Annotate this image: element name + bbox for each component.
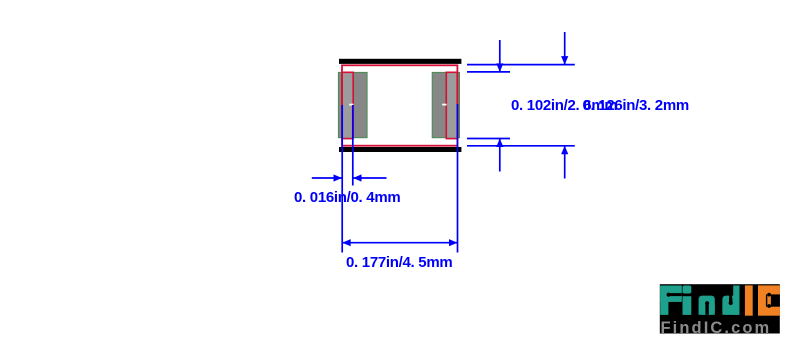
bottom edge bar (package bottom side): [339, 147, 461, 152]
logo letter d: [722, 286, 739, 315]
extension line body bottom (right side, long): [467, 145, 575, 147]
2.6mm dimension lower arrow line: [499, 139, 501, 172]
logo letter I: [745, 285, 753, 315]
top edge bar (package top side): [339, 59, 461, 64]
0.016in dimension left arrowhead: [334, 174, 343, 181]
3.2mm dimension upper arrow line: [564, 32, 566, 65]
anchor tick left terminal: [349, 104, 353, 106]
left terminal pad (gray with green outline): [338, 72, 367, 137]
0.177in dimension line: [342, 242, 457, 244]
svg-text:FindIC.com: FindIC.com: [661, 319, 772, 337]
svg-text:0. 126in/3. 2mm: 0. 126in/3. 2mm: [583, 97, 689, 114]
extension line at left band right edge: [352, 105, 354, 186]
3.2mm dimension lower arrowhead: [561, 146, 568, 155]
0.177in dimension right arrowhead: [449, 239, 458, 246]
2.6mm dimension lower arrowhead: [496, 139, 503, 148]
logo letter F: [660, 286, 682, 315]
extension line pad bottom (right side, short): [467, 138, 510, 140]
3.2mm dimension upper arrowhead: [561, 56, 568, 65]
extension line at body right edge: [457, 104, 459, 253]
0.177in dimension left arrowhead: [342, 239, 351, 246]
right terminal pad (gray with green outline): [432, 72, 459, 137]
logo letter i: [683, 286, 692, 315]
package body outline (red): [342, 65, 457, 145]
anchor tick right terminal: [442, 104, 446, 106]
svg-text:0. 177in/4. 5mm: 0. 177in/4. 5mm: [346, 254, 452, 271]
extension line body top (right side, long): [467, 64, 575, 66]
extension line pad top (right side, short): [467, 71, 510, 73]
0.016in dimension right arrow line: [353, 177, 387, 179]
logo letter C: [758, 285, 780, 315]
left terminal inner band (red outline, lighter fill): [342, 72, 353, 138]
0.016in dimension right arrowhead: [353, 174, 362, 181]
logo letter n: [699, 296, 715, 315]
FindIC logo background: [660, 284, 780, 333]
right terminal inner band (red outline, lighter fill): [446, 72, 457, 138]
svg-text:0. 016in/0. 4mm: 0. 016in/0. 4mm: [294, 189, 400, 206]
3.2mm dimension lower arrow line: [564, 146, 566, 179]
extension line at body left edge: [341, 105, 343, 253]
2.6mm dimension upper arrow line: [499, 40, 501, 72]
2.6mm dimension upper arrowhead: [496, 63, 503, 72]
0.016in dimension left arrow line: [312, 177, 342, 179]
